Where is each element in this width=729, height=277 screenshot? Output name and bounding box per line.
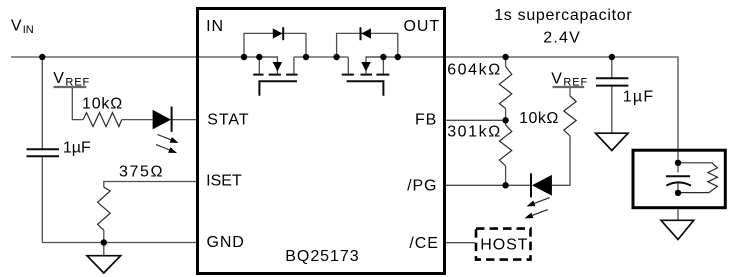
svg-text:IN: IN — [206, 18, 224, 35]
svg-text:301kΩ: 301kΩ — [447, 124, 502, 141]
svg-text:/PG: /PG — [407, 178, 437, 195]
svg-text:10kΩ: 10kΩ — [519, 110, 559, 127]
svg-text:2.4V: 2.4V — [543, 30, 581, 47]
svg-text:/CE: /CE — [409, 235, 438, 252]
svg-text:IN: IN — [23, 24, 34, 36]
svg-text:REF: REF — [65, 76, 90, 88]
svg-text:STAT: STAT — [207, 112, 249, 129]
svg-text:V: V — [53, 70, 64, 87]
svg-text:V: V — [551, 70, 562, 87]
svg-text:BQ25173: BQ25173 — [285, 248, 359, 265]
svg-text:604kΩ: 604kΩ — [447, 61, 502, 78]
svg-text:GND: GND — [207, 234, 245, 251]
svg-text:REF: REF — [563, 77, 588, 89]
svg-text:FB: FB — [415, 112, 437, 129]
svg-text:HOST: HOST — [480, 237, 528, 254]
svg-text:1µF: 1µF — [63, 139, 91, 156]
svg-text:1s supercapacitor: 1s supercapacitor — [494, 7, 632, 24]
svg-text:375Ω: 375Ω — [119, 164, 164, 181]
svg-text:OUT: OUT — [404, 18, 440, 35]
svg-text:V: V — [11, 17, 22, 34]
svg-text:1µF: 1µF — [623, 89, 655, 106]
svg-text:10kΩ: 10kΩ — [82, 96, 123, 113]
svg-text:ISET: ISET — [206, 173, 242, 190]
